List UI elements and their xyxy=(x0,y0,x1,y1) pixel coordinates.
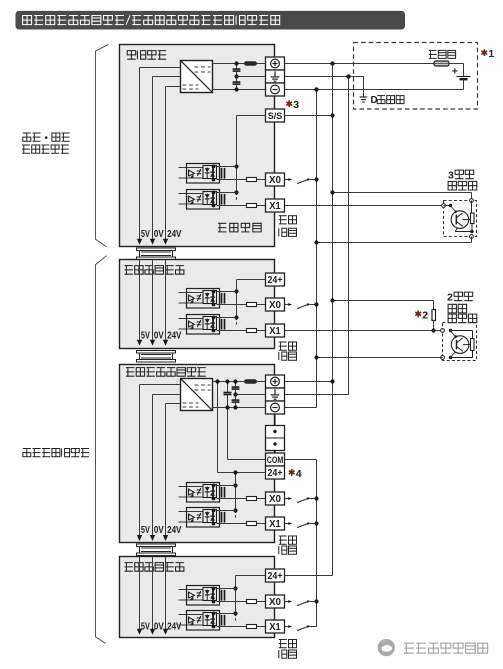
svg-text:24+: 24+ xyxy=(268,571,283,582)
terminal X0 B1 xyxy=(266,173,285,186)
svg-text:X0: X0 xyxy=(269,300,281,311)
svg-text:+: + xyxy=(452,66,458,78)
wire S/S internal rail B1 xyxy=(237,115,266,117)
wire +24V line B1 to fuse xyxy=(285,63,435,65)
svg-text:S/S: S/S xyxy=(268,111,283,122)
wire 24+ internal rail B4 xyxy=(236,575,266,577)
logo 电气工程师助手 watermark xyxy=(378,639,395,656)
bus connector B2-B3 xyxy=(137,351,176,354)
optocoupler PC7 input X0 B4 xyxy=(179,589,204,591)
wire 5V 0V 24V rails B3 with arrows xyxy=(139,385,141,537)
wire +24V B3 to rail R2 xyxy=(285,381,333,383)
ground symbol class D xyxy=(360,96,368,98)
inductor L1 xyxy=(245,62,257,65)
terminal +24V output B1 xyxy=(266,57,285,70)
terminal 24+ B3 xyxy=(266,466,285,479)
wire 5V/0V/24V leads from PS2 xyxy=(140,384,181,386)
optocoupler PC4 input X1 B2 xyxy=(179,318,204,320)
svg-text:0V: 0V xyxy=(154,229,164,240)
capacitor C1/C2 filter pair xyxy=(236,64,238,70)
svg-text:X0: X0 xyxy=(269,175,281,186)
resistor R5 X0 B3 xyxy=(247,497,257,501)
wire internal 0V branch to COM B3 xyxy=(227,408,229,460)
resistor R6 X1 B3 xyxy=(247,522,257,526)
terminal earth B3 xyxy=(266,388,285,401)
svg-text:4: 4 xyxy=(296,468,302,480)
resistor R1 input impedance X0 B1 xyxy=(247,178,257,182)
optocoupler PC3 input X0 B2 xyxy=(179,292,204,294)
optocoupler PC5 input X0 B3 xyxy=(179,486,204,488)
optocoupler PC6 input X1 B3 xyxy=(179,511,204,513)
resistor R2 input impedance X1 B1 xyxy=(247,204,257,208)
block U2 输入扩展模块 (input extension module) xyxy=(120,260,275,349)
block U4 输入扩展模块 (input extension module 2) xyxy=(120,557,275,638)
terminal X0 B4 xyxy=(266,595,285,608)
wire internal 24V branch to 24+ B3 xyxy=(217,382,219,473)
svg-text:3: 3 xyxy=(448,169,454,181)
wire X1 B1 to sensor1 xyxy=(285,205,444,207)
wire earth line B1 to class-D ground xyxy=(285,76,364,78)
resistor R7 X0 B4 xyxy=(247,600,257,604)
label 输入阻抗 (input impedance) xyxy=(218,223,226,232)
svg-text:COM: COM xyxy=(267,455,284,465)
svg-text:24+: 24+ xyxy=(268,468,283,479)
svg-text:0V: 0V xyxy=(154,525,164,536)
svg-text:5V: 5V xyxy=(141,622,150,633)
note *4 xyxy=(289,469,295,476)
resistor bleeder *2 xyxy=(432,310,436,321)
switch SW5 input X0 B4 xyxy=(285,601,292,603)
bus connector B3-B4 xyxy=(137,544,176,547)
terminal COM B3 xyxy=(266,453,285,466)
terminal 0V output B3 xyxy=(266,401,285,414)
svg-text:X0: X0 xyxy=(269,597,281,608)
power supply PS1 xyxy=(181,61,213,93)
svg-text:24V: 24V xyxy=(167,622,182,633)
header title bar xyxy=(16,11,406,30)
svg-text:0V: 0V xyxy=(154,331,164,342)
svg-text:2: 2 xyxy=(422,309,428,321)
wire 5V 0V 24V rails B4 with arrows xyxy=(139,557,141,630)
svg-text:24V: 24V xyxy=(167,229,182,240)
wire PS2 outputs xyxy=(213,381,245,383)
svg-text:5V: 5V xyxy=(141,331,150,342)
block U1 基本单元 (basic unit) xyxy=(120,45,275,247)
wire 24+ internal rail B2 xyxy=(237,279,266,281)
label 输入端子 B4 xyxy=(279,640,287,648)
svg-text:X1: X1 xyxy=(269,519,281,530)
inductor L2 xyxy=(245,380,257,383)
wire PS1 outputs xyxy=(213,63,245,65)
svg-text:X1: X1 xyxy=(269,326,281,337)
terminal X1 B1 xyxy=(266,199,285,212)
wire X1 B2 to sensor2 xyxy=(285,330,443,332)
svg-text:X0: X0 xyxy=(269,494,281,505)
wire sensor2 24V feed with bleeder xyxy=(333,300,434,302)
svg-text:5V: 5V xyxy=(141,229,150,240)
terminal 24+ B4 xyxy=(266,569,285,582)
optocoupler PC8 input X1 B4 xyxy=(179,614,204,616)
svg-text:5V: 5V xyxy=(141,525,150,536)
wire sensor2 0V return xyxy=(317,357,443,359)
optocoupler PC1 input X0 B1 xyxy=(179,167,204,169)
switch SW1 input X0 B1 xyxy=(285,179,292,181)
battery BT1 24V xyxy=(463,64,465,77)
svg-text:24V: 24V xyxy=(167,331,182,342)
wire terminal column link B3 xyxy=(274,414,276,426)
terminal S/S B1 xyxy=(266,109,285,122)
wire 24+ internal rail B3 (opto feed) xyxy=(235,473,237,511)
label 输入端子 B1 (input terminals) xyxy=(279,216,287,224)
terminal X0 B2 xyxy=(266,298,285,311)
svg-text:2: 2 xyxy=(447,291,453,303)
switch SW4 input X1 B3 xyxy=(285,523,292,525)
switch SW3 input X0 B3 xyxy=(285,498,292,500)
svg-text:24V: 24V xyxy=(167,525,182,536)
note *1 xyxy=(481,49,487,56)
COM wire B3 vertical xyxy=(285,459,317,461)
svg-text:1: 1 xyxy=(488,48,494,60)
svg-text:D: D xyxy=(371,95,378,106)
svg-text:X1: X1 xyxy=(269,622,281,633)
terminal 0V output B1 xyxy=(266,83,285,96)
wire sensor1 24V feed xyxy=(333,192,472,194)
bracket left 漏型输入专用型 xyxy=(96,256,107,644)
terminal 24+ B2 xyxy=(266,273,285,286)
wire 5V 0V 24V rails B2 with arrows xyxy=(139,260,141,341)
rail earth vertical R3 xyxy=(348,77,350,395)
rail 24V vertical R2 xyxy=(332,64,334,576)
resistor sensor2 load xyxy=(471,339,475,351)
dashed external supply box xyxy=(354,43,478,110)
wire S/S B1 to 24V rail R2 xyxy=(285,115,333,117)
switch SW2 input X0 B2 xyxy=(285,304,292,306)
label 输入端子 B3 xyxy=(279,536,287,544)
capacitor C3 single across supply B3 xyxy=(227,382,229,393)
bus connector B1-B2 xyxy=(137,248,176,251)
sensor1 3-wire sensor body xyxy=(444,201,477,237)
terminal X0 B3 xyxy=(266,492,285,505)
terminal X1 B3 xyxy=(266,517,285,530)
bracket left 漏型・源型输入通用型 xyxy=(96,44,109,246)
wire 5V/0V/24V leads from PS1 xyxy=(140,67,181,69)
resistor R8 X1 B4 xyxy=(247,625,257,629)
resistor R3 X0 B2 xyxy=(247,303,257,307)
svg-text:3: 3 xyxy=(293,99,299,111)
capacitor C4/C5 filter pair B3 xyxy=(235,382,237,388)
terminal spare dots B3 xyxy=(266,426,285,451)
optocoupler PC2 input X1 B1 xyxy=(179,193,204,195)
label 保险丝 (fuse) xyxy=(429,50,437,58)
svg-text:0V: 0V xyxy=(154,622,164,633)
power supply PS2 xyxy=(181,379,213,411)
block U3 输入输出扩展单元 (I/O extension unit) xyxy=(120,365,275,543)
switch SW6 input X1 B4 xyxy=(285,626,292,628)
resistor sensor1 load xyxy=(471,213,475,224)
svg-text:24+: 24+ xyxy=(268,275,283,286)
wire 5V 0V 24V rails B1 with arrows xyxy=(139,68,141,240)
fuse F1 xyxy=(434,61,449,66)
terminal earth B1 xyxy=(266,70,285,83)
resistor R4 X1 B2 xyxy=(247,329,257,333)
wire 0V line B1 to battery minus xyxy=(285,89,464,91)
sensor2 2-wire proximity sensor body xyxy=(443,323,477,361)
terminal X1 B2 xyxy=(266,324,285,337)
svg-text:X1: X1 xyxy=(269,201,281,212)
note *2 xyxy=(415,310,421,317)
rail 0V vertical R1 xyxy=(316,90,318,408)
wire sensor1 0V return xyxy=(471,237,473,243)
note *3 xyxy=(286,100,292,107)
terminal X1 B4 xyxy=(266,620,285,633)
terminal +24V output B3 xyxy=(266,375,285,388)
label 输入端子 B2 xyxy=(279,342,287,350)
